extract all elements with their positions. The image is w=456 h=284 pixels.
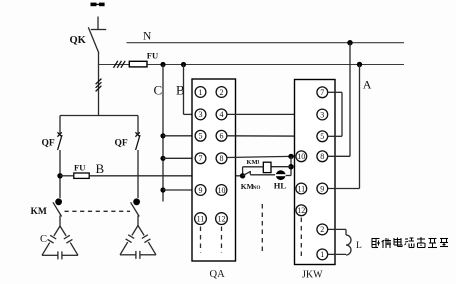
QA pin 6	[216, 130, 227, 141]
JKW pin 1	[317, 249, 328, 260]
QA pin 3	[195, 109, 206, 120]
svg-text:12: 12	[218, 215, 226, 224]
wire N line	[127, 42, 405, 44]
node left branch B tap	[57, 173, 62, 178]
JKW pin 10	[296, 151, 307, 162]
node A drop	[357, 62, 362, 67]
QA pin 12	[216, 213, 228, 225]
svg-text:KM: KM	[31, 207, 47, 217]
QA pin 5	[195, 130, 206, 141]
JKW pin 12	[296, 205, 307, 216]
wire left branch upper	[59, 116, 61, 134]
dashed lead between blocks	[261, 204, 263, 255]
svg-text:HL: HL	[274, 180, 287, 190]
wire coil left lead	[243, 166, 264, 168]
fuse FU left	[74, 173, 89, 178]
QA pin 8	[216, 153, 227, 164]
JKW pin 5	[317, 131, 328, 142]
svg-text:QF: QF	[115, 139, 128, 149]
svg-text:1: 1	[199, 88, 203, 97]
svg-text:NO: NO	[253, 185, 261, 191]
svg-text:1: 1	[320, 250, 324, 259]
QA pin 7	[195, 153, 206, 164]
svg-text:2: 2	[320, 225, 324, 234]
wire jumper JKW7 to JKW5	[328, 92, 342, 136]
svg-text:B: B	[176, 83, 185, 98]
terminal block QA	[192, 79, 236, 261]
JKW pin 7	[317, 87, 328, 98]
svg-text:QK: QK	[70, 35, 87, 46]
wire left branch lower	[59, 150, 61, 198]
wire right branch lower	[137, 150, 139, 198]
node C to pin5	[160, 133, 165, 138]
controller block JKW	[295, 80, 336, 265]
wire lamp to node	[286, 175, 291, 177]
JKW pin 3	[317, 109, 328, 120]
svg-text:8: 8	[320, 152, 324, 161]
svg-text:C: C	[154, 83, 163, 98]
wire contact to lamp	[250, 174, 276, 176]
svg-text:3: 3	[320, 110, 324, 119]
wire A to JKW9	[328, 65, 360, 189]
svg-text:N: N	[143, 31, 152, 43]
capacitor delta C left	[42, 226, 78, 259]
svg-text:3: 3	[199, 110, 203, 119]
node lamp top	[288, 154, 293, 159]
svg-text:7: 7	[199, 154, 203, 163]
contact KMNO blade	[243, 171, 251, 175]
fuse FU top	[129, 61, 147, 67]
svg-text:QA: QA	[210, 269, 226, 280]
mechanical link dashed	[65, 210, 131, 212]
svg-text:8: 8	[220, 154, 224, 163]
svg-text:FU: FU	[147, 51, 158, 61]
wire N to JKW8	[328, 43, 350, 157]
svg-text:6: 6	[220, 132, 224, 141]
wire B vertical	[183, 65, 185, 115]
svg-text:B: B	[96, 161, 105, 176]
svg-text:11: 11	[197, 215, 205, 224]
svg-text:5: 5	[320, 132, 324, 141]
svg-text:9: 9	[320, 184, 324, 193]
wire right branch upper	[137, 116, 139, 134]
QA dashed leads	[201, 227, 222, 253]
wire coil right lead	[271, 166, 291, 168]
svg-text:12: 12	[297, 206, 305, 215]
JKW pin 8	[317, 151, 328, 162]
svg-text:A: A	[363, 78, 372, 92]
svg-text:1: 1	[257, 160, 260, 166]
wire main drop	[98, 65, 100, 116]
JKW pin 11	[296, 183, 307, 194]
svg-text:FU: FU	[74, 163, 85, 173]
wire C to pin9	[163, 189, 195, 191]
wire QA8 to JKW10	[227, 156, 291, 157]
svg-text:4: 4	[220, 110, 224, 119]
svg-text:QF: QF	[42, 139, 55, 149]
QA pin 11	[195, 213, 207, 225]
wire C to pin7	[163, 157, 195, 159]
svg-text:C: C	[40, 234, 47, 245]
wire C to pin5	[163, 135, 195, 137]
svg-text:2: 2	[220, 88, 224, 97]
svg-text:L: L	[356, 241, 362, 251]
busbar	[91, 3, 105, 7]
QA pin 10	[216, 185, 227, 196]
svg-text:10: 10	[297, 152, 305, 161]
switch QK blade	[88, 27, 99, 53]
wire control line B	[60, 175, 74, 177]
wire branch split bar	[60, 115, 138, 117]
svg-text:5: 5	[199, 132, 203, 141]
svg-text:10: 10	[218, 186, 226, 195]
three-phase marks on horizontal wire	[114, 61, 126, 68]
contactor KM right	[131, 198, 140, 225]
label KMNO	[241, 182, 261, 191]
wire QK to line	[98, 53, 100, 66]
wire C vertical	[162, 65, 164, 202]
label KM1	[247, 159, 261, 166]
wire phase line	[99, 64, 405, 66]
lamp HL	[275, 170, 286, 180]
coil KM1	[263, 162, 271, 172]
inductor L sampling CT	[328, 229, 351, 255]
node C to pin7	[160, 156, 165, 161]
switch QK fixed contact	[91, 17, 106, 30]
node C to pin9	[160, 187, 165, 192]
three-phase marks on vertical wire	[96, 79, 102, 92]
wire QA4 to JKW3	[227, 113, 317, 115]
wire coil branch vertical	[290, 156, 292, 175]
JKW dashed lead	[300, 218, 302, 258]
JKW pin 2	[317, 224, 328, 235]
node coil right	[288, 164, 293, 169]
capacitor delta right	[120, 226, 156, 259]
QA pin 4	[216, 109, 227, 120]
node N drop	[347, 40, 352, 45]
contactor KM left	[53, 198, 62, 226]
JKW pin 9	[317, 183, 328, 194]
node C tap	[160, 62, 165, 67]
svg-text:11: 11	[297, 184, 305, 193]
breaker QF right	[135, 132, 140, 150]
label sampling current transformer chinese	[372, 237, 449, 248]
wire QA6 to JKW5	[227, 135, 317, 137]
QA pin 2	[216, 87, 227, 98]
svg-text:JKW: JKW	[302, 270, 323, 281]
QA pin 9	[195, 185, 206, 196]
svg-text:7: 7	[320, 88, 324, 97]
node B tap	[181, 62, 186, 67]
QA pin 1	[195, 87, 206, 98]
svg-text:9: 9	[199, 186, 203, 195]
breaker QF left	[57, 132, 62, 150]
node contact KMNO	[240, 173, 245, 178]
